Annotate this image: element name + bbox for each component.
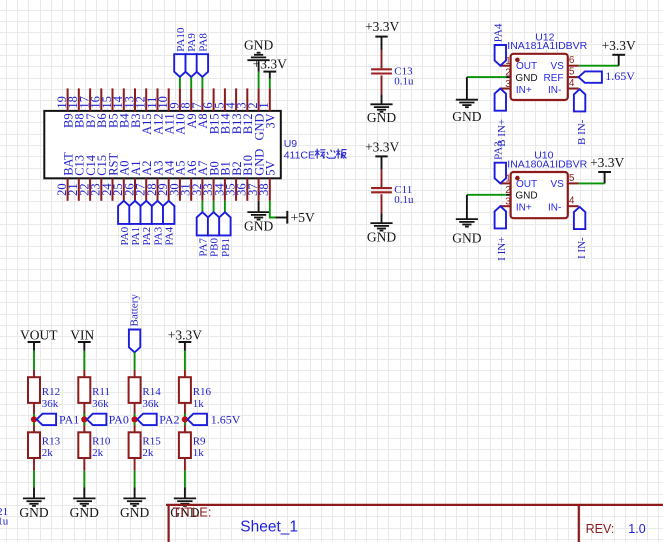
svg-text:INA180A1IDBVR: INA180A1IDBVR <box>507 158 587 170</box>
svg-text:+3.3V: +3.3V <box>602 38 636 53</box>
svg-text:PA7: PA7 <box>197 238 209 257</box>
svg-text:+5V: +5V <box>291 210 315 225</box>
svg-text:U9: U9 <box>284 138 298 150</box>
svg-text:+3.3V: +3.3V <box>253 57 287 72</box>
svg-text:36k: 36k <box>92 398 109 410</box>
svg-text:IN-: IN- <box>548 203 561 214</box>
svg-text:R16: R16 <box>193 386 212 398</box>
svg-text:2k: 2k <box>42 447 54 459</box>
svg-text:R9: R9 <box>193 435 206 447</box>
svg-text:VOUT: VOUT <box>20 328 58 343</box>
svg-text:+3.3V: +3.3V <box>168 328 202 343</box>
svg-text:OUT: OUT <box>516 61 537 72</box>
svg-text:+3.3V: +3.3V <box>365 139 399 154</box>
svg-text:IN+: IN+ <box>516 85 532 96</box>
svg-text:5: 5 <box>569 173 575 184</box>
svg-text:4: 4 <box>569 196 575 207</box>
svg-text:36k: 36k <box>42 398 59 410</box>
svg-text:Sheet_1: Sheet_1 <box>240 519 298 536</box>
svg-text:PA8: PA8 <box>197 33 209 52</box>
svg-text:3: 3 <box>505 197 511 208</box>
svg-text:1.65V: 1.65V <box>605 69 635 83</box>
svg-text:VS: VS <box>551 179 565 190</box>
svg-text:0.1u: 0.1u <box>0 516 9 528</box>
svg-text:IN+: IN+ <box>516 203 532 214</box>
svg-text:2: 2 <box>505 67 511 78</box>
svg-text:INA181A1IDBVR: INA181A1IDBVR <box>507 40 587 52</box>
svg-text:GND: GND <box>515 73 537 84</box>
svg-text:GND: GND <box>244 218 273 233</box>
svg-text:3: 3 <box>505 79 511 90</box>
svg-text:OUT: OUT <box>516 179 537 190</box>
svg-text:IN-: IN- <box>548 85 561 96</box>
svg-text:R14: R14 <box>142 386 161 398</box>
svg-text:6: 6 <box>569 55 575 66</box>
svg-text:4: 4 <box>569 78 575 89</box>
svg-text:B IN-: B IN- <box>576 119 588 145</box>
svg-text:+3.3V: +3.3V <box>365 19 399 34</box>
svg-text:+3.3V: +3.3V <box>590 155 624 170</box>
svg-text:1.65V: 1.65V <box>211 413 241 427</box>
svg-text:R11: R11 <box>92 386 110 398</box>
svg-text:GND: GND <box>19 505 48 520</box>
svg-text:PA2: PA2 <box>141 227 153 246</box>
svg-text:R15: R15 <box>142 435 161 447</box>
svg-text:I IN+: I IN+ <box>496 237 508 261</box>
svg-text:2k: 2k <box>142 447 154 459</box>
svg-text:I IN-: I IN- <box>576 237 588 259</box>
svg-text:R10: R10 <box>92 435 111 447</box>
svg-text:36k: 36k <box>142 398 159 410</box>
svg-text:PA0: PA0 <box>119 226 131 245</box>
svg-text:PA0: PA0 <box>109 413 129 427</box>
svg-text:1k: 1k <box>193 398 205 410</box>
svg-text:PA1: PA1 <box>130 227 142 246</box>
svg-text:1k: 1k <box>193 447 205 459</box>
svg-text:GND: GND <box>244 38 273 53</box>
svg-text:GND: GND <box>70 505 99 520</box>
svg-text:1: 1 <box>257 102 271 108</box>
svg-text:Battery: Battery <box>129 294 141 327</box>
svg-text:3V: 3V <box>264 113 278 128</box>
svg-text:TITLE:: TITLE: <box>173 505 212 520</box>
svg-text:PA4: PA4 <box>492 23 504 42</box>
svg-text:PA3: PA3 <box>492 141 504 160</box>
svg-text:PA4: PA4 <box>164 226 176 245</box>
svg-text:GND: GND <box>452 230 481 245</box>
svg-text:1: 1 <box>505 174 511 185</box>
svg-text:0.1u: 0.1u <box>394 75 414 87</box>
svg-text:5V: 5V <box>264 161 278 176</box>
svg-text:PA3: PA3 <box>153 226 165 245</box>
svg-text:PB0: PB0 <box>209 238 221 257</box>
svg-text:PA2: PA2 <box>159 413 179 427</box>
svg-text:1.0: 1.0 <box>628 522 645 536</box>
svg-text:GND: GND <box>120 505 149 520</box>
svg-text:PA1: PA1 <box>59 413 79 427</box>
svg-text:GND: GND <box>515 191 537 202</box>
svg-text:PA9: PA9 <box>186 33 198 52</box>
svg-text:0.1u: 0.1u <box>394 194 414 206</box>
svg-text:GND: GND <box>367 110 396 125</box>
svg-text:GND: GND <box>452 109 481 124</box>
svg-text:38: 38 <box>257 183 271 196</box>
svg-text:411CE: 411CE <box>284 150 315 162</box>
svg-text:PA10: PA10 <box>175 27 187 52</box>
svg-text:REV:: REV: <box>586 522 615 536</box>
svg-text:REF: REF <box>544 73 564 84</box>
svg-text:VS: VS <box>551 61 565 72</box>
svg-text:R13: R13 <box>42 435 61 447</box>
svg-text:5: 5 <box>569 67 575 78</box>
svg-text:R12: R12 <box>42 386 60 398</box>
svg-text:2: 2 <box>505 185 511 196</box>
svg-text:1: 1 <box>505 56 511 67</box>
svg-text:2k: 2k <box>92 447 104 459</box>
svg-text:GND: GND <box>367 230 396 245</box>
svg-text:VIN: VIN <box>70 328 94 343</box>
svg-text:PB1: PB1 <box>220 238 232 257</box>
